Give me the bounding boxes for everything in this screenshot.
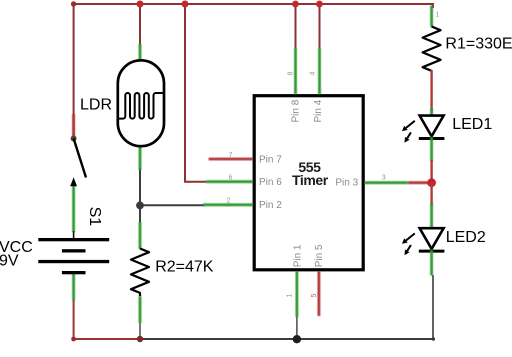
LED1 arrow b [407, 132, 411, 138]
svg-text:7: 7 [229, 152, 233, 159]
leg: switch S1 top (red) [72, 114, 75, 137]
wire: pin 1 thin lead to bottom rail [296, 316, 298, 339]
LED1 triangle [420, 116, 444, 137]
LED2 arrow b [407, 245, 411, 251]
svg-text:Pin 5: Pin 5 [314, 244, 325, 267]
node A: LDR/R2/pin2 junction [136, 202, 144, 210]
battery plate short 2 [62, 271, 86, 274]
wire: rail drop to pin 4 [319, 4, 321, 49]
LED1 [402, 116, 445, 143]
node: pin3/LED1/LED2 junction [427, 178, 436, 187]
wire: battery negative to bottom rail [74, 300, 141, 339]
wire: rail corner to R1 [432, 3, 434, 8]
wire: LED2 cathode down to bottom rail [432, 275, 434, 339]
svg-text:Pin 6: Pin 6 [259, 177, 282, 188]
LED1 cathode bar [419, 137, 445, 140]
LED2 arrow a [406, 233, 415, 240]
svg-text:Pin 8: Pin 8 [290, 99, 301, 122]
node: bottom-left corner [71, 337, 76, 342]
leg: pin 6 (green) [206, 180, 253, 183]
leg: LDR top (green) [139, 44, 142, 61]
battery plate long 1 [38, 238, 109, 241]
svg-text:LDR: LDR [80, 96, 112, 113]
leg: pin 5 (red, unconnected) [317, 271, 320, 316]
svg-text:9V: 9V [0, 253, 19, 270]
leg: LED2 cathode (green) [430, 250, 433, 276]
LDR serpentine element [119, 93, 164, 119]
leg: pin 1 (green) [295, 271, 298, 317]
wire: bottom ground rail (gray) [140, 338, 434, 340]
node: bottom rail right corner [432, 337, 436, 341]
svg-text:Pin 7: Pin 7 [259, 155, 282, 166]
leg: pin 8 (green) [294, 48, 297, 94]
svg-text:2: 2 [227, 197, 231, 204]
svg-text:1: 1 [436, 12, 440, 19]
svg-text:Pin 1: Pin 1 [292, 244, 303, 267]
svg-text:Pin 4: Pin 4 [313, 99, 324, 122]
leg: R2 bottom (green) [139, 296, 142, 323]
battery plate short 1 [62, 249, 86, 252]
node: junction rail/pin4 wire [316, 1, 323, 8]
node: R2/bottom-rail junction [137, 336, 143, 342]
leg: pin 4 (green) [318, 48, 321, 94]
LED2 [402, 228, 445, 255]
resistor R2 [131, 249, 149, 297]
leg: LED1 anode (green) [430, 109, 433, 117]
op: 555 timer IC body [254, 96, 363, 270]
LED2 cathode bar [419, 250, 445, 253]
node: junction rail/pin8 wire [292, 1, 299, 8]
leg: pin 7 (red, unconnected) [209, 158, 253, 161]
leg: R1 top (green) [430, 6, 433, 28]
wire: rail drop to pin 6 [185, 4, 207, 182]
leg: LED2 anode (green) [430, 203, 433, 229]
svg-text:4: 4 [310, 72, 317, 76]
LDR body [118, 60, 164, 146]
leg: switch S1 bottom to battery + (green) [72, 186, 75, 233]
svg-text:S1: S1 [86, 207, 103, 227]
wire: LED1 to junction (red) [430, 160, 432, 183]
svg-text:R1=330E: R1=330E [445, 36, 512, 53]
switch S1 [70, 136, 86, 187]
leg: LDR bottom (green) [139, 146, 142, 170]
LED1 arrow a [406, 121, 415, 128]
battery plate long 2 [38, 260, 109, 263]
svg-text:5: 5 [311, 294, 318, 298]
wire: left vertical from rail to switch S1 [73, 3, 75, 137]
leg: pin 3 (green) [365, 181, 409, 184]
wire: pin 3 to LED junction (red) [408, 181, 430, 184]
battery stub from switch [73, 231, 75, 239]
switch pivot [71, 136, 77, 142]
battery VCC 9V [38, 231, 109, 274]
wire: R1 to LED1 (red) [430, 70, 432, 111]
svg-text:Pin 2: Pin 2 [259, 200, 282, 211]
svg-text:LED2: LED2 [446, 229, 486, 246]
svg-text:6: 6 [229, 175, 233, 182]
wire: node A down to R2 [139, 206, 141, 224]
node: rail corner at left [71, 1, 76, 6]
wire: LDR bottom to node A [139, 168, 141, 203]
LED2 triangle [420, 228, 444, 249]
leg: R2 top (green) [139, 222, 142, 249]
wire: junction to LED2 (red) [430, 183, 432, 205]
svg-text:Pin 3: Pin 3 [335, 178, 358, 189]
wire: rail drop to pin 8 [295, 4, 297, 49]
leg: battery - down (green) [72, 274, 75, 302]
resistor R1 [423, 27, 441, 71]
wire: node A to pin 2 [140, 204, 204, 206]
leg: LED1 cathode (green) [430, 137, 433, 161]
wire: top VCC rail [74, 3, 433, 5]
switch blade [74, 139, 86, 178]
svg-text:R2=47K: R2=47K [155, 259, 214, 276]
wire: R2 bottom thin lead to bottom rail [139, 322, 141, 339]
wire: rail drop to LDR [139, 4, 141, 45]
switch lower contact arrow [70, 177, 77, 186]
node: junction rail/LDR [137, 1, 144, 8]
leg: pin 2 (green) [203, 203, 253, 206]
node: pin1/ground junction [293, 335, 301, 343]
svg-text:1: 1 [287, 294, 294, 298]
svg-text:8: 8 [287, 72, 294, 76]
svg-text:LED1: LED1 [452, 116, 492, 133]
node: junction rail/pin6 wire [182, 1, 189, 8]
svg-text:Timer: Timer [292, 172, 329, 188]
svg-text:3: 3 [382, 175, 386, 182]
